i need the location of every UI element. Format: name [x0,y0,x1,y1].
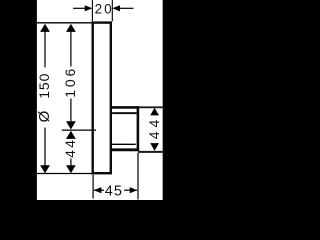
dimension 106: upper shaft [70,30,72,67]
dimension 44 left: lower shaft [70,159,72,167]
dimension 106: lower arrow [66,121,76,129]
dimension 20: right witness line [111,0,113,21]
dimension 45: left witness line [92,175,94,199]
white drawing strip [37,0,163,200]
cartridge inner thin line [112,143,136,145]
dimension Ø150: upper arrow [40,24,50,32]
svg-text:150: 150 [36,73,52,99]
cartridge flange line [112,112,137,114]
svg-text:45: 45 [105,184,123,200]
svg-text:20: 20 [95,2,114,17]
dimension 20: left witness line [91,0,93,21]
svg-text:44: 44 [62,138,78,158]
dimension 44 left: lower arrow [66,165,76,173]
dimension 45: left arrow (points left) [94,187,102,193]
cartridge bottom reference extension [138,151,163,153]
cartridge right edge [137,106,140,151]
dimension 20: right shaft [119,7,134,9]
dimension Ø150: lower shaft [44,128,46,167]
svg-text:Ø: Ø [36,110,53,122]
dimension 45: right witness line [137,153,139,200]
dimension 44 left: upper arrow [66,131,76,139]
plate profile (escutcheon side view) [93,23,111,174]
dimension 45: right stub [124,189,137,191]
svg-text:106: 106 [62,66,78,98]
dimension 20: left shaft [73,7,86,9]
dimension 44 right: upper arrow [150,108,159,116]
dimension 45: right arrow (points right) [130,187,138,193]
dimension 44 right: lower arrow [150,143,159,151]
cartridge bottom edge [110,148,139,151]
dimension 106: lower shaft [70,99,72,124]
svg-text:44: 44 [146,116,162,140]
dimension 20: left arrow (points right) [85,5,93,11]
dimension 20: right arrow (points left) [112,5,120,11]
black left margin band [0,0,37,200]
dimension Ø150: lower arrow [40,165,50,173]
bottom extension line [37,173,92,175]
cartridge top reference extension [139,106,163,108]
black right margin band [163,0,200,200]
top extension line [37,22,92,24]
dimension 106: upper arrow [66,24,76,32]
valve centre reference line [62,129,96,131]
cartridge housing top edge [111,106,139,109]
dimension Ø150: upper shaft [44,30,46,68]
dimension 45: left stub [94,189,104,191]
